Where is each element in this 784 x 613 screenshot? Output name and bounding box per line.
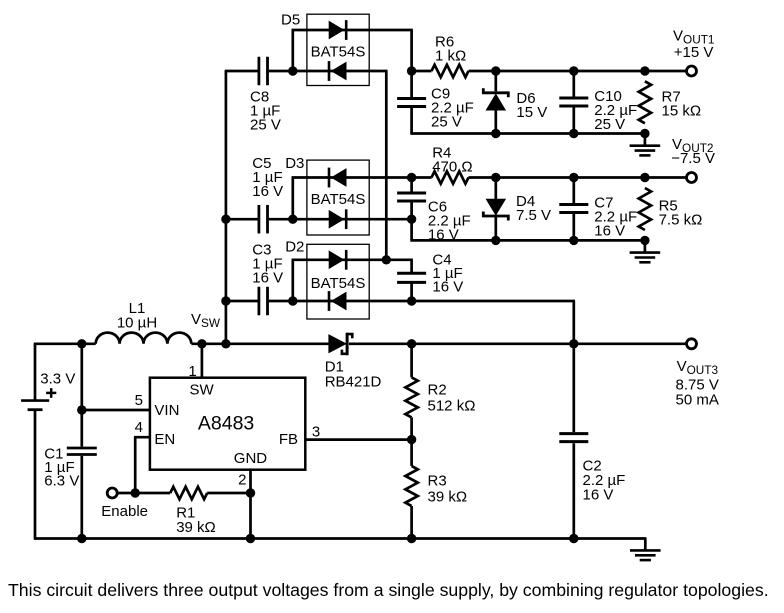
diode box D5 [307, 14, 369, 85]
capacitor C7 [559, 178, 637, 241]
svg-text:D3: D3 [285, 155, 304, 172]
junction C7 bottom [569, 236, 578, 245]
capacitor C3 [252, 242, 283, 316]
svg-text:512 kΩ: 512 kΩ [428, 398, 476, 415]
svg-text:D2: D2 [285, 239, 304, 256]
label D3 [285, 155, 304, 172]
resistor R5 [639, 188, 703, 230]
wire FB [305, 424, 411, 441]
svg-text:39 kΩ: 39 kΩ [176, 519, 216, 536]
junction C1 branch [77, 339, 86, 348]
wire D3 bottom to C6 [293, 218, 412, 221]
svg-text:5: 5 [135, 392, 143, 409]
svg-text:−7.5 V: −7.5 V [671, 150, 715, 167]
junction pump/C5 [221, 215, 230, 224]
wire D1 to VOUT3 terminal [349, 342, 687, 345]
wire Enable [117, 492, 250, 495]
label Enable [101, 503, 148, 520]
diode D1 RB421D [325, 333, 382, 391]
wire D5 top output [292, 30, 413, 71]
wire VSW rail [34, 342, 96, 345]
svg-text:3: 3 [312, 424, 320, 441]
junction GND/R1 [246, 488, 255, 497]
svg-text:16 V: 16 V [252, 183, 283, 200]
junction C1 bottom [77, 534, 86, 543]
junction R3 bottom [407, 534, 416, 543]
svg-text:3.3 V: 3.3 V [40, 371, 75, 388]
diode D2b (bottom, left-pointing) [329, 291, 346, 311]
wire C5 to node A2 [226, 218, 293, 221]
svg-text:BAT54S: BAT54S [311, 191, 366, 208]
zener diode D4 [483, 178, 551, 241]
junction R7 top [640, 66, 649, 75]
wire C8 to node A1 [225, 70, 293, 73]
svg-text:470 Ω: 470 Ω [432, 158, 472, 175]
battery cell 3.3V [21, 371, 75, 410]
diode box D3 [307, 160, 369, 235]
terminal VOUT1 [687, 66, 697, 76]
svg-text:D5: D5 [281, 12, 300, 29]
diode D3b (bottom, right-pointing) [329, 209, 346, 229]
junction C4 bottom [407, 296, 416, 305]
capacitor C9 [397, 71, 474, 134]
svg-text:FB: FB [279, 431, 298, 448]
svg-text:+15 V: +15 V [674, 44, 714, 61]
svg-text:15 kΩ: 15 kΩ [662, 103, 702, 120]
ground under R7 [630, 134, 661, 156]
label VOUT3 [676, 358, 719, 409]
junction GND/ground rail [246, 534, 255, 543]
capacitor C1 [44, 445, 97, 489]
junction R5 bottom [640, 236, 649, 245]
svg-text:BAT54S: BAT54S [311, 275, 366, 292]
caption [8, 580, 769, 600]
label GND [234, 450, 267, 467]
wire battery top [34, 344, 37, 539]
svg-text:6.3 V: 6.3 V [44, 472, 79, 489]
resistor R6 [432, 34, 469, 78]
resistor R3 [405, 440, 467, 539]
ground symbol bottom [630, 539, 661, 561]
svg-text:R3: R3 [428, 473, 447, 490]
wire cell2 return [410, 239, 646, 242]
junction VIN/C1 [77, 405, 86, 414]
junction C7 top [569, 173, 578, 182]
junction pump/C3 [221, 296, 230, 305]
resistor R2 [405, 344, 475, 440]
svg-text:50 mA: 50 mA [676, 392, 719, 409]
pin 4 EN [134, 419, 175, 493]
junction D4 top [491, 173, 500, 182]
svg-text:RB421D: RB421D [325, 374, 382, 391]
resistor R4 [432, 144, 473, 183]
svg-text:1 kΩ: 1 kΩ [435, 48, 466, 65]
capacitor C5 [252, 155, 283, 233]
svg-text:2: 2 [238, 471, 246, 488]
junction D6 bottom [491, 129, 500, 138]
node A1 junction [288, 66, 297, 75]
svg-text:10 µH: 10 µH [117, 315, 157, 332]
junction FB [407, 435, 416, 444]
svg-text:This circuit delivers three ou: This circuit delivers three output volta… [8, 580, 769, 600]
wire D5 bottom to link [293, 71, 388, 260]
label BAT54S (D3) [311, 191, 366, 208]
svg-text:EN: EN [154, 431, 175, 448]
capacitor C10 [559, 71, 637, 134]
label D2 [285, 239, 304, 256]
pin 1 SW [188, 344, 214, 399]
node VOUT2 rail left junction [407, 173, 416, 182]
svg-text:GND: GND [234, 450, 267, 467]
junction pump rail [221, 339, 230, 348]
junction R2 top [407, 339, 416, 348]
svg-text:VIN: VIN [154, 402, 179, 419]
diode D5b (bottom, left-pointing) [329, 61, 346, 81]
svg-text:7.5 V: 7.5 V [516, 207, 551, 224]
wire L1 to D1 [191, 342, 329, 345]
label BAT54S (D5) [311, 44, 366, 61]
capacitor C8 [250, 57, 281, 134]
junction SW pin [197, 339, 206, 348]
wire cell1 return [410, 132, 646, 135]
diode D5a (top, right-pointing) [329, 20, 346, 40]
label D5 [281, 12, 300, 29]
junction R5 top [640, 173, 649, 182]
svg-text:39 kΩ: 39 kΩ [428, 489, 468, 506]
junction C6/D3b [407, 215, 416, 224]
svg-text:Enable: Enable [101, 503, 148, 520]
node A2 junction [288, 215, 297, 224]
IC U1 A8483 [150, 378, 305, 470]
capacitor C2 [559, 344, 625, 539]
resistor R1 [170, 487, 216, 536]
zener diode D6 [483, 71, 547, 134]
svg-text:R2: R2 [428, 382, 447, 399]
pin 2 GND [238, 470, 250, 539]
node A3 junction [288, 296, 297, 305]
wire C1 branch [80, 344, 83, 539]
junction C2 bottom [569, 534, 578, 543]
wire node A2 up-link [291, 178, 294, 220]
label FB [279, 431, 298, 448]
junction D6 top [491, 66, 500, 75]
inductor L1 [96, 300, 192, 344]
diode D3a (top, left-pointing) [329, 168, 346, 188]
wire C4 leads [410, 260, 413, 301]
label VSW [191, 311, 221, 330]
label VOUT2 [671, 136, 715, 167]
diode box D2 [307, 244, 369, 319]
wire R6 leads [412, 70, 687, 73]
svg-text:16 V: 16 V [432, 279, 463, 296]
junction R7 bottom [640, 129, 649, 138]
svg-text:25 V: 25 V [250, 117, 281, 134]
svg-text:16 V: 16 V [594, 223, 625, 240]
svg-text:A8483: A8483 [198, 413, 254, 435]
terminal Enable [107, 488, 117, 498]
junction C10 bottom [569, 129, 578, 138]
wire C3 to node A3 [226, 300, 293, 303]
svg-text:SW: SW [190, 382, 215, 399]
wire D2 top output [292, 258, 413, 261]
svg-text:4: 4 [135, 419, 143, 436]
svg-text:25 V: 25 V [431, 114, 462, 131]
wire D2 bottom to C2 column [293, 301, 575, 344]
svg-text:25 V: 25 V [594, 116, 625, 133]
junction D4 bottom [491, 236, 500, 245]
ground rail [34, 537, 647, 540]
diode D2a (top, right-pointing) [329, 250, 346, 270]
svg-text:15 V: 15 V [516, 104, 547, 121]
junction C2 top [569, 339, 578, 348]
junction EN branch [131, 488, 140, 497]
wire node A3 up-link [291, 260, 294, 301]
wire D3 top [292, 176, 412, 179]
junction C10 top [569, 66, 578, 75]
svg-text:16 V: 16 V [252, 270, 283, 287]
junction D2a/link [382, 255, 391, 264]
terminal VOUT2 [687, 173, 697, 183]
capacitor C6 [397, 178, 471, 244]
svg-text:16 V: 16 V [583, 487, 614, 504]
wire R4 leads [412, 176, 687, 179]
label VOUT1 [673, 28, 714, 62]
wire pump rail [225, 71, 228, 344]
pin 5 VIN [82, 392, 180, 419]
node VOUT1 rail left junction [407, 66, 416, 75]
svg-text:1: 1 [188, 363, 196, 380]
resistor R7 [639, 81, 701, 123]
wire node A1 up-link [291, 30, 294, 71]
capacitor C4 [397, 251, 463, 295]
ground under R5 [630, 240, 661, 262]
svg-text:BAT54S: BAT54S [311, 44, 366, 61]
terminal VOUT3 [687, 339, 697, 349]
label BAT54S (D2) [311, 275, 366, 292]
svg-text:7.5 kΩ: 7.5 kΩ [659, 212, 703, 229]
